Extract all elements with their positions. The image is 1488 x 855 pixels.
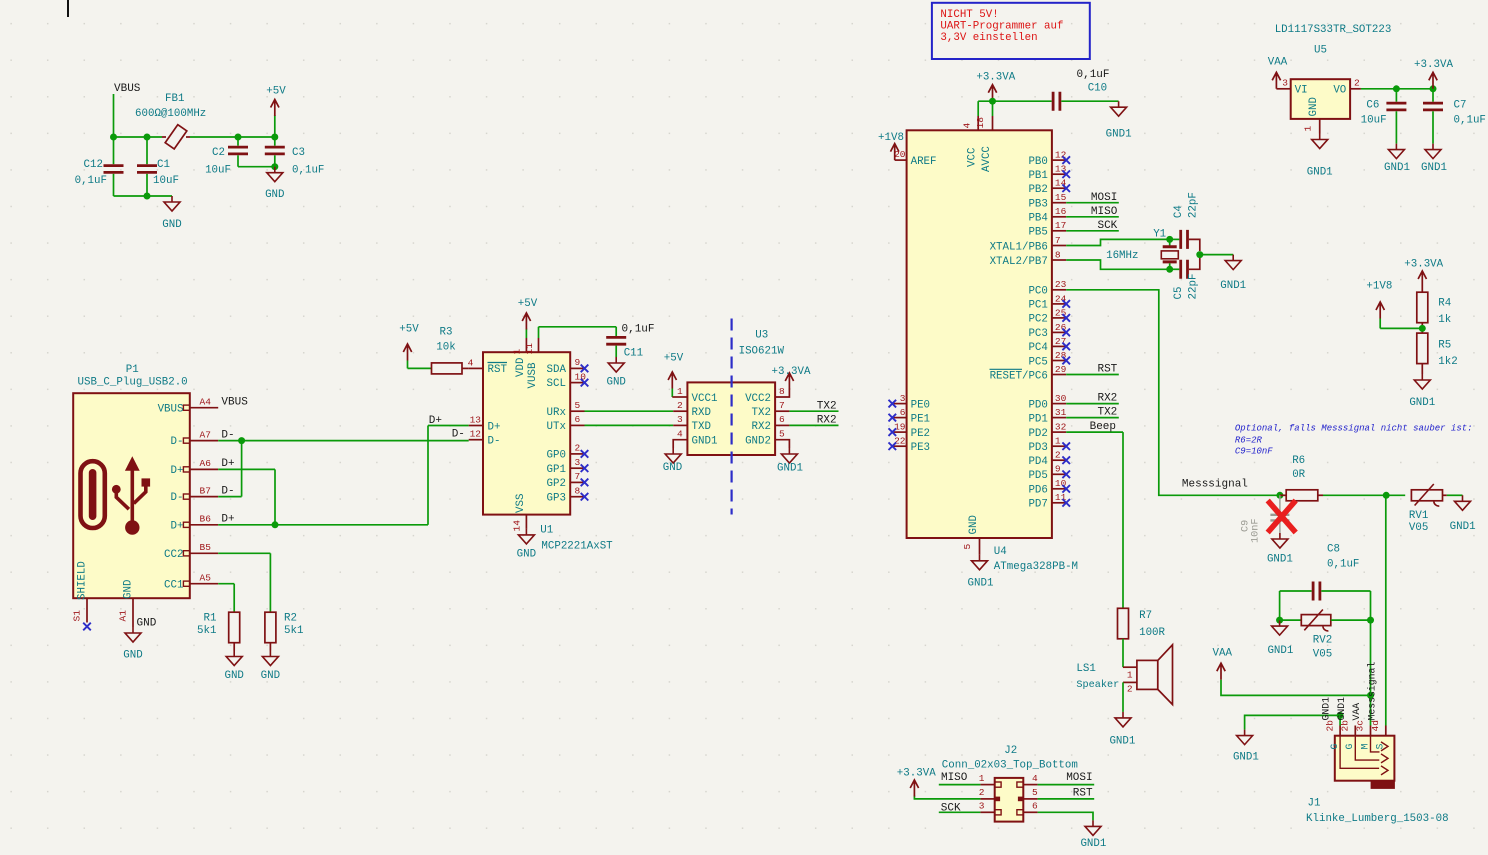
ground GND (C11) [608, 357, 624, 372]
svg-text:1: 1 [979, 773, 985, 784]
svg-text:D-: D- [488, 436, 501, 448]
pin 29 RESET/PC6 RST [1052, 374, 1066, 376]
svg-text:GP1: GP1 [547, 464, 566, 476]
svg-text:LD1117S33TR_SOT223: LD1117S33TR_SOT223 [1275, 24, 1392, 36]
svg-text:600Ω@100MHz: 600Ω@100MHz [135, 108, 206, 120]
pin 6 PE1 [892, 417, 906, 419]
svg-text:32: 32 [1055, 422, 1067, 433]
svg-text:TXD: TXD [692, 421, 711, 433]
junction C2 tap [235, 134, 242, 141]
wire C1 lead [146, 137, 148, 164]
svg-text:3c: 3c [1355, 720, 1366, 732]
wire R7 to speaker [1122, 639, 1124, 667]
svg-text:8: 8 [575, 486, 581, 497]
svg-text:MISO: MISO [1091, 206, 1118, 218]
svg-text:1: 1 [512, 349, 523, 355]
svg-text:MCP2221AxST: MCP2221AxST [541, 541, 613, 553]
svg-text:J2: J2 [1004, 745, 1017, 757]
pin 1 PD3 [1052, 445, 1066, 447]
ground GND1 (J2) [1085, 820, 1101, 835]
svg-text:R6=2R: R6=2R [1235, 435, 1263, 445]
svg-text:G: G [1344, 744, 1355, 750]
wire VBUS horizontal to FB1 [114, 136, 163, 138]
svg-text:7: 7 [1055, 235, 1061, 246]
pin 1 (LS1) [1123, 666, 1137, 668]
svg-text:10k: 10k [436, 342, 455, 354]
ground GND (P1) [125, 627, 141, 642]
svg-text:GP2: GP2 [547, 478, 566, 490]
ground GND (R2) [269, 643, 271, 651]
svg-text:TX2: TX2 [1097, 407, 1117, 419]
svg-text:3: 3 [575, 457, 581, 468]
svg-text:+5V: +5V [266, 86, 286, 98]
svg-text:GND1: GND1 [777, 463, 803, 475]
power +3.3VA (J2) [910, 780, 918, 797]
svg-text:NICHT 5V!: NICHT 5V! [940, 9, 998, 21]
svg-text:C5: C5 [1173, 287, 1185, 300]
ground GND (U1 VSS) [518, 529, 534, 544]
pin 7 TX2 [775, 410, 789, 412]
wire VBUS vertical [113, 94, 115, 164]
svg-text:A4: A4 [200, 397, 212, 408]
svg-text:17: 17 [1055, 220, 1066, 231]
pin 1 VDD [525, 338, 527, 352]
svg-text:VBUS: VBUS [158, 403, 184, 415]
junction C4/C5 [1196, 251, 1203, 258]
pin 4 MOSI [1017, 782, 1023, 787]
svg-text:GND: GND [123, 650, 142, 662]
svg-text:PD5: PD5 [1028, 470, 1047, 482]
pin 14 PB2 [1052, 187, 1066, 189]
svg-text:2b: 2b [1324, 720, 1335, 732]
resistor R2 5k1 [265, 612, 276, 643]
svg-text:RV2: RV2 [1313, 635, 1332, 647]
svg-text:B6: B6 [200, 514, 212, 525]
wire TX2 [789, 410, 838, 412]
svg-text:GND1: GND1 [1321, 697, 1332, 721]
svg-text:B7: B7 [200, 485, 211, 496]
svg-text:USB_C_Plug_USB2.0: USB_C_Plug_USB2.0 [78, 377, 188, 389]
wire C12/C1 bottom to GND [114, 195, 173, 197]
wire VUSB to C11 [538, 327, 540, 338]
svg-text:3: 3 [979, 801, 985, 812]
capacitor C1 [137, 166, 157, 173]
svg-text:R3: R3 [440, 327, 453, 339]
svg-text:AVCC: AVCC [981, 146, 993, 172]
wire LS1 to GND1 [1122, 682, 1124, 712]
svg-text:RESET/PC6: RESET/PC6 [990, 370, 1048, 382]
pin 8 VCC2 [775, 389, 789, 398]
pin 8 GP3 [570, 496, 584, 498]
svg-text:C11: C11 [624, 348, 643, 360]
svg-text:5: 5 [575, 400, 581, 411]
svg-text:5: 5 [1032, 787, 1038, 798]
svg-text:31: 31 [1055, 407, 1067, 418]
pin A7 D- [183, 438, 189, 443]
wire C2/C3 bottom [238, 166, 275, 168]
svg-text:2: 2 [575, 443, 581, 454]
ground GND1 (RV2) [1272, 620, 1288, 635]
svg-text:GND1: GND1 [1267, 554, 1293, 566]
svg-text:5: 5 [962, 544, 973, 550]
capacitor C11 0.1uF [615, 327, 617, 336]
capacitor C5 22pF [1170, 268, 1180, 270]
wire Messsignal down to jack [1385, 495, 1387, 725]
junction jack GND [1337, 712, 1344, 719]
svg-text:PB2: PB2 [1028, 184, 1047, 196]
junction XTAL2 [1166, 266, 1173, 273]
svg-text:GND1: GND1 [1233, 752, 1259, 764]
svg-text:1k2: 1k2 [1438, 356, 1457, 368]
svg-text:GND: GND [265, 189, 284, 201]
svg-text:MISO: MISO [941, 772, 968, 784]
svg-text:RST: RST [1073, 787, 1093, 799]
wire RV1 to GND1 [1447, 494, 1463, 496]
svg-text:GND1: GND1 [968, 578, 994, 590]
svg-text:Messsignal: Messsignal [1182, 478, 1248, 490]
svg-text:SHIELD: SHIELD [76, 561, 88, 600]
svg-text:RXD: RXD [692, 407, 711, 419]
svg-text:0R: 0R [1292, 469, 1305, 481]
pin 27 PC4 [1052, 345, 1066, 347]
ground GND1 (C6) [1388, 144, 1404, 159]
svg-text:15: 15 [1055, 192, 1067, 203]
capacitor C3 [274, 137, 276, 146]
svg-text:Optional, falls Messsignal nic: Optional, falls Messsignal nicht sauber … [1235, 424, 1473, 434]
pin A6 D+ [183, 467, 189, 472]
pin 10 SCL [570, 382, 584, 384]
svg-text:A5: A5 [200, 573, 212, 584]
svg-text:18: 18 [975, 117, 986, 129]
resistor R1 5k1 [229, 612, 240, 643]
svg-text:S1: S1 [72, 610, 83, 622]
junction VAA [1367, 692, 1374, 699]
svg-text:GND1: GND1 [1080, 838, 1106, 850]
pin 6 GND [1017, 810, 1023, 815]
sheet border fragment [67, 0, 69, 17]
svg-text:TX2: TX2 [817, 400, 837, 412]
power +5V (U3) [668, 372, 676, 389]
DNP cross C9 [1268, 501, 1296, 533]
pin 32 PD2 Beep [1052, 431, 1066, 433]
junction AVCC [989, 98, 996, 105]
resistor R4 1k [1417, 292, 1428, 323]
svg-text:GND1: GND1 [1450, 521, 1476, 533]
pin 2b GND stub 2 [1354, 726, 1356, 736]
resistor R3 10k [432, 363, 463, 374]
svg-text:29: 29 [1055, 364, 1067, 375]
svg-text:RST: RST [1097, 364, 1117, 376]
capacitor C12 [104, 166, 124, 173]
svg-text:10uF: 10uF [1361, 115, 1387, 127]
svg-text:GND1: GND1 [1336, 697, 1347, 721]
pin 22 PE3 [892, 445, 906, 447]
svg-text:13: 13 [470, 414, 482, 425]
svg-text:Conn_02x03_Top_Bottom: Conn_02x03_Top_Bottom [942, 760, 1078, 772]
svg-text:B5: B5 [200, 542, 212, 553]
svg-text:3: 3 [900, 393, 906, 404]
svg-text:Klinke_Lumberg_1503-08: Klinke_Lumberg_1503-08 [1306, 813, 1449, 825]
svg-text:CC2: CC2 [164, 549, 183, 561]
svg-text:GND: GND [162, 219, 181, 231]
svg-text:0,1uF: 0,1uF [75, 175, 107, 187]
svg-text:Speaker: Speaker [1076, 679, 1119, 691]
warning text box [932, 3, 1090, 59]
ground GND1 (R5) [1421, 364, 1423, 374]
wire to GND1 (crystal) [1200, 254, 1233, 256]
power +3.3VA (U5 out) [1429, 72, 1437, 89]
svg-text:8: 8 [1055, 249, 1061, 260]
pin 2 GP0 [570, 453, 584, 455]
pin 12 D- [469, 439, 483, 441]
svg-text:12: 12 [470, 429, 482, 440]
svg-text:GND: GND [663, 462, 682, 474]
svg-text:D-: D- [171, 492, 184, 504]
junction RV2 left [1276, 617, 1283, 624]
pin 5 GND2 [775, 440, 789, 448]
svg-text:VO: VO [1333, 85, 1346, 97]
pin 4 VCC [977, 116, 979, 130]
power +5V (U1 VDD) [525, 329, 527, 338]
pin 8 XTAL2/PB7 [1052, 259, 1066, 261]
svg-text:VUSB: VUSB [527, 362, 539, 388]
pin 3 TXD [673, 424, 687, 426]
pin 1 GND stub [1319, 119, 1321, 134]
pin 18 AVCC [992, 116, 994, 130]
svg-text:22pF: 22pF [1188, 192, 1200, 218]
svg-text:J1: J1 [1308, 797, 1321, 809]
svg-text:+3.3VA: +3.3VA [897, 768, 936, 780]
svg-text:100R: 100R [1139, 627, 1165, 639]
svg-text:+3.3VA: +3.3VA [1414, 59, 1453, 71]
power +3.3VA (U3) [785, 373, 793, 390]
svg-text:ATmega328PB-M: ATmega328PB-M [994, 561, 1078, 573]
svg-text:9: 9 [575, 357, 581, 368]
svg-text:GND1: GND1 [1409, 397, 1435, 409]
svg-text:6: 6 [779, 414, 785, 425]
svg-text:GND: GND [517, 549, 536, 561]
svg-text:PB5: PB5 [1028, 227, 1047, 239]
junction D+ branch [272, 521, 279, 528]
svg-text:D+: D+ [171, 465, 184, 477]
pin 11 PD7 [1052, 502, 1066, 504]
svg-text:RST: RST [488, 364, 508, 376]
pin 16 PB4 MISO [1052, 216, 1066, 218]
pin 3 VI [1276, 88, 1290, 90]
pin 1 MISO [995, 782, 1001, 787]
svg-text:R5: R5 [1438, 340, 1451, 352]
pin 31 PD1 TX2 [1052, 417, 1066, 419]
power +5V (input) [274, 115, 276, 137]
svg-text:CC1: CC1 [164, 579, 183, 591]
svg-text:7: 7 [575, 471, 581, 482]
svg-text:R6: R6 [1292, 455, 1305, 467]
svg-text:9: 9 [1055, 464, 1061, 475]
ferrite bead FB1 [165, 125, 187, 149]
svg-text:VSS: VSS [515, 494, 527, 513]
svg-text:1: 1 [1127, 670, 1133, 681]
wire C8 left down [1279, 591, 1281, 620]
svg-text:GND1: GND1 [1384, 162, 1410, 174]
capacitor C10 0.1uF [1053, 92, 1060, 111]
pin 2 PD4 [1052, 459, 1066, 461]
svg-text:D-: D- [221, 485, 234, 497]
svg-text:D+: D+ [171, 520, 184, 532]
ground GND1 (C10) [1111, 101, 1127, 116]
pin 13 D+ [469, 425, 483, 427]
svg-text:RV1: RV1 [1409, 510, 1428, 522]
wire R4-R5 [1421, 323, 1423, 333]
svg-text:0,1uF: 0,1uF [1077, 69, 1110, 81]
pin 4 RST [469, 367, 483, 369]
svg-text:M: M [1359, 744, 1370, 750]
svg-text:D-: D- [221, 429, 234, 441]
svg-text:UTx: UTx [547, 421, 566, 433]
pin 23 PC0 [1052, 289, 1066, 291]
svg-text:VAA: VAA [1351, 703, 1362, 721]
svg-text:C8: C8 [1327, 544, 1340, 556]
ground GND (C2 C3) [267, 167, 283, 182]
svg-text:PE1: PE1 [911, 413, 930, 425]
svg-text:SCK: SCK [1097, 220, 1117, 232]
svg-text:GND: GND [261, 670, 280, 682]
svg-text:23: 23 [1055, 279, 1067, 290]
ground GND1 (crystal) [1225, 255, 1241, 270]
svg-text:+5V: +5V [518, 298, 538, 310]
power +5V (R3) [403, 344, 411, 361]
junction C1 tap [144, 134, 151, 141]
pin 6 UTx [570, 424, 584, 426]
svg-text:PC2: PC2 [1028, 314, 1047, 326]
pin 5 URx [570, 410, 584, 412]
pin 2 RXD [673, 410, 687, 412]
jack internal contacts [1340, 736, 1379, 769]
pin 2 VO [1350, 88, 1361, 90]
svg-text:D+: D+ [221, 514, 234, 526]
pin 5 RST [1018, 797, 1023, 802]
svg-text:14: 14 [512, 520, 523, 532]
connector J1 Klinke_Lumberg_1503-08 [1335, 736, 1395, 781]
svg-text:GP3: GP3 [547, 492, 566, 504]
wire RX2 [789, 424, 838, 426]
pin 11 VUSB [538, 338, 540, 352]
svg-text:PE3: PE3 [911, 442, 930, 454]
svg-text:+3.3VA: +3.3VA [976, 72, 1015, 84]
svg-text:PC5: PC5 [1028, 356, 1047, 368]
svg-text:4: 4 [961, 123, 972, 129]
svg-text:Beep: Beep [1090, 421, 1116, 433]
svg-text:VCC1: VCC1 [692, 393, 718, 405]
svg-text:VI: VI [1295, 85, 1308, 97]
ground GND1 (U4) [972, 555, 988, 570]
svg-text:C3: C3 [292, 147, 305, 159]
svg-text:C6: C6 [1366, 100, 1379, 112]
pin 10 PD6 [1052, 488, 1066, 490]
svg-text:PD3: PD3 [1028, 442, 1047, 454]
svg-text:U3: U3 [755, 330, 768, 342]
ground GND1 (RV1) [1455, 495, 1471, 510]
USB logo [81, 456, 151, 534]
svg-text:PC4: PC4 [1028, 342, 1047, 354]
svg-text:ISO621W: ISO621W [739, 345, 785, 357]
svg-text:0,1uF: 0,1uF [622, 324, 655, 336]
junction divider tap [1419, 325, 1426, 332]
pin 3c VAA stub [1370, 726, 1372, 736]
wire UTx to TXD [585, 424, 674, 426]
capacitor C6 10uF [1395, 89, 1397, 102]
svg-text:10nF: 10nF [1250, 519, 1261, 543]
svg-text:VAA: VAA [1213, 647, 1233, 659]
svg-text:1: 1 [677, 386, 683, 397]
pin 15 PB3 MOSI [1052, 202, 1066, 204]
crystal Y1 16MHz [1169, 239, 1171, 245]
svg-text:2: 2 [979, 787, 985, 798]
svg-text:C9=10nF: C9=10nF [1235, 447, 1273, 457]
svg-text:3,3V einstellen: 3,3V einstellen [940, 32, 1037, 44]
svg-text:C2: C2 [212, 147, 225, 159]
svg-text:Y1: Y1 [1153, 228, 1166, 240]
wire Beep down to R7 [1122, 432, 1124, 608]
svg-text:C10: C10 [1088, 83, 1107, 95]
ground GND (input filter) [164, 196, 180, 211]
svg-text:PE2: PE2 [911, 428, 930, 440]
svg-text:GND1: GND1 [692, 436, 718, 448]
svg-text:3: 3 [1282, 78, 1288, 89]
pin 9 PD5 [1052, 473, 1066, 475]
svg-text:GND1: GND1 [1109, 736, 1135, 748]
junction D- branch [238, 437, 245, 444]
capacitor C2 [237, 137, 239, 146]
svg-text:PC3: PC3 [1028, 328, 1047, 340]
svg-text:2: 2 [1127, 684, 1133, 695]
svg-text:GND: GND [123, 580, 135, 599]
svg-text:D-: D- [171, 436, 184, 448]
pin 20 AREF [895, 159, 907, 161]
wire R6 to RV1 [1323, 494, 1405, 496]
svg-text:RX2: RX2 [1097, 393, 1117, 405]
junction C7 [1430, 85, 1437, 92]
svg-text:G: G [1329, 744, 1340, 750]
svg-text:VBUS: VBUS [221, 397, 248, 409]
svg-text:1k: 1k [1438, 314, 1451, 326]
svg-text:+1V8: +1V8 [878, 132, 904, 144]
svg-text:7: 7 [779, 400, 785, 411]
pin 6 RX2 [775, 424, 789, 426]
svg-text:2b: 2b [1340, 720, 1351, 732]
svg-text:PD4: PD4 [1028, 456, 1047, 468]
svg-text:R1: R1 [204, 613, 217, 625]
svg-text:10: 10 [575, 371, 587, 382]
svg-text:22pF: 22pF [1188, 274, 1200, 300]
pin 9 SDA [570, 367, 584, 369]
svg-text:2: 2 [1055, 450, 1061, 461]
svg-text:VCC: VCC [967, 147, 979, 167]
svg-text:11: 11 [524, 343, 535, 355]
svg-text:GND2: GND2 [745, 436, 771, 448]
wire D- A7 to U1 [218, 440, 469, 442]
svg-text:C7: C7 [1454, 100, 1467, 112]
svg-text:0,1uF: 0,1uF [292, 165, 324, 177]
wire VCC/AVCC rail [978, 100, 1051, 102]
capacitor C4 22pF [1170, 238, 1180, 240]
wire CC1 to R1 [218, 583, 234, 585]
svg-text:GND1: GND1 [1106, 129, 1132, 141]
pin 4 GND1 [673, 440, 687, 448]
wire VO rail [1361, 88, 1433, 90]
svg-text:PB1: PB1 [1028, 170, 1047, 182]
wire R3 to RST [462, 367, 469, 369]
svg-text:SDA: SDA [547, 364, 567, 376]
